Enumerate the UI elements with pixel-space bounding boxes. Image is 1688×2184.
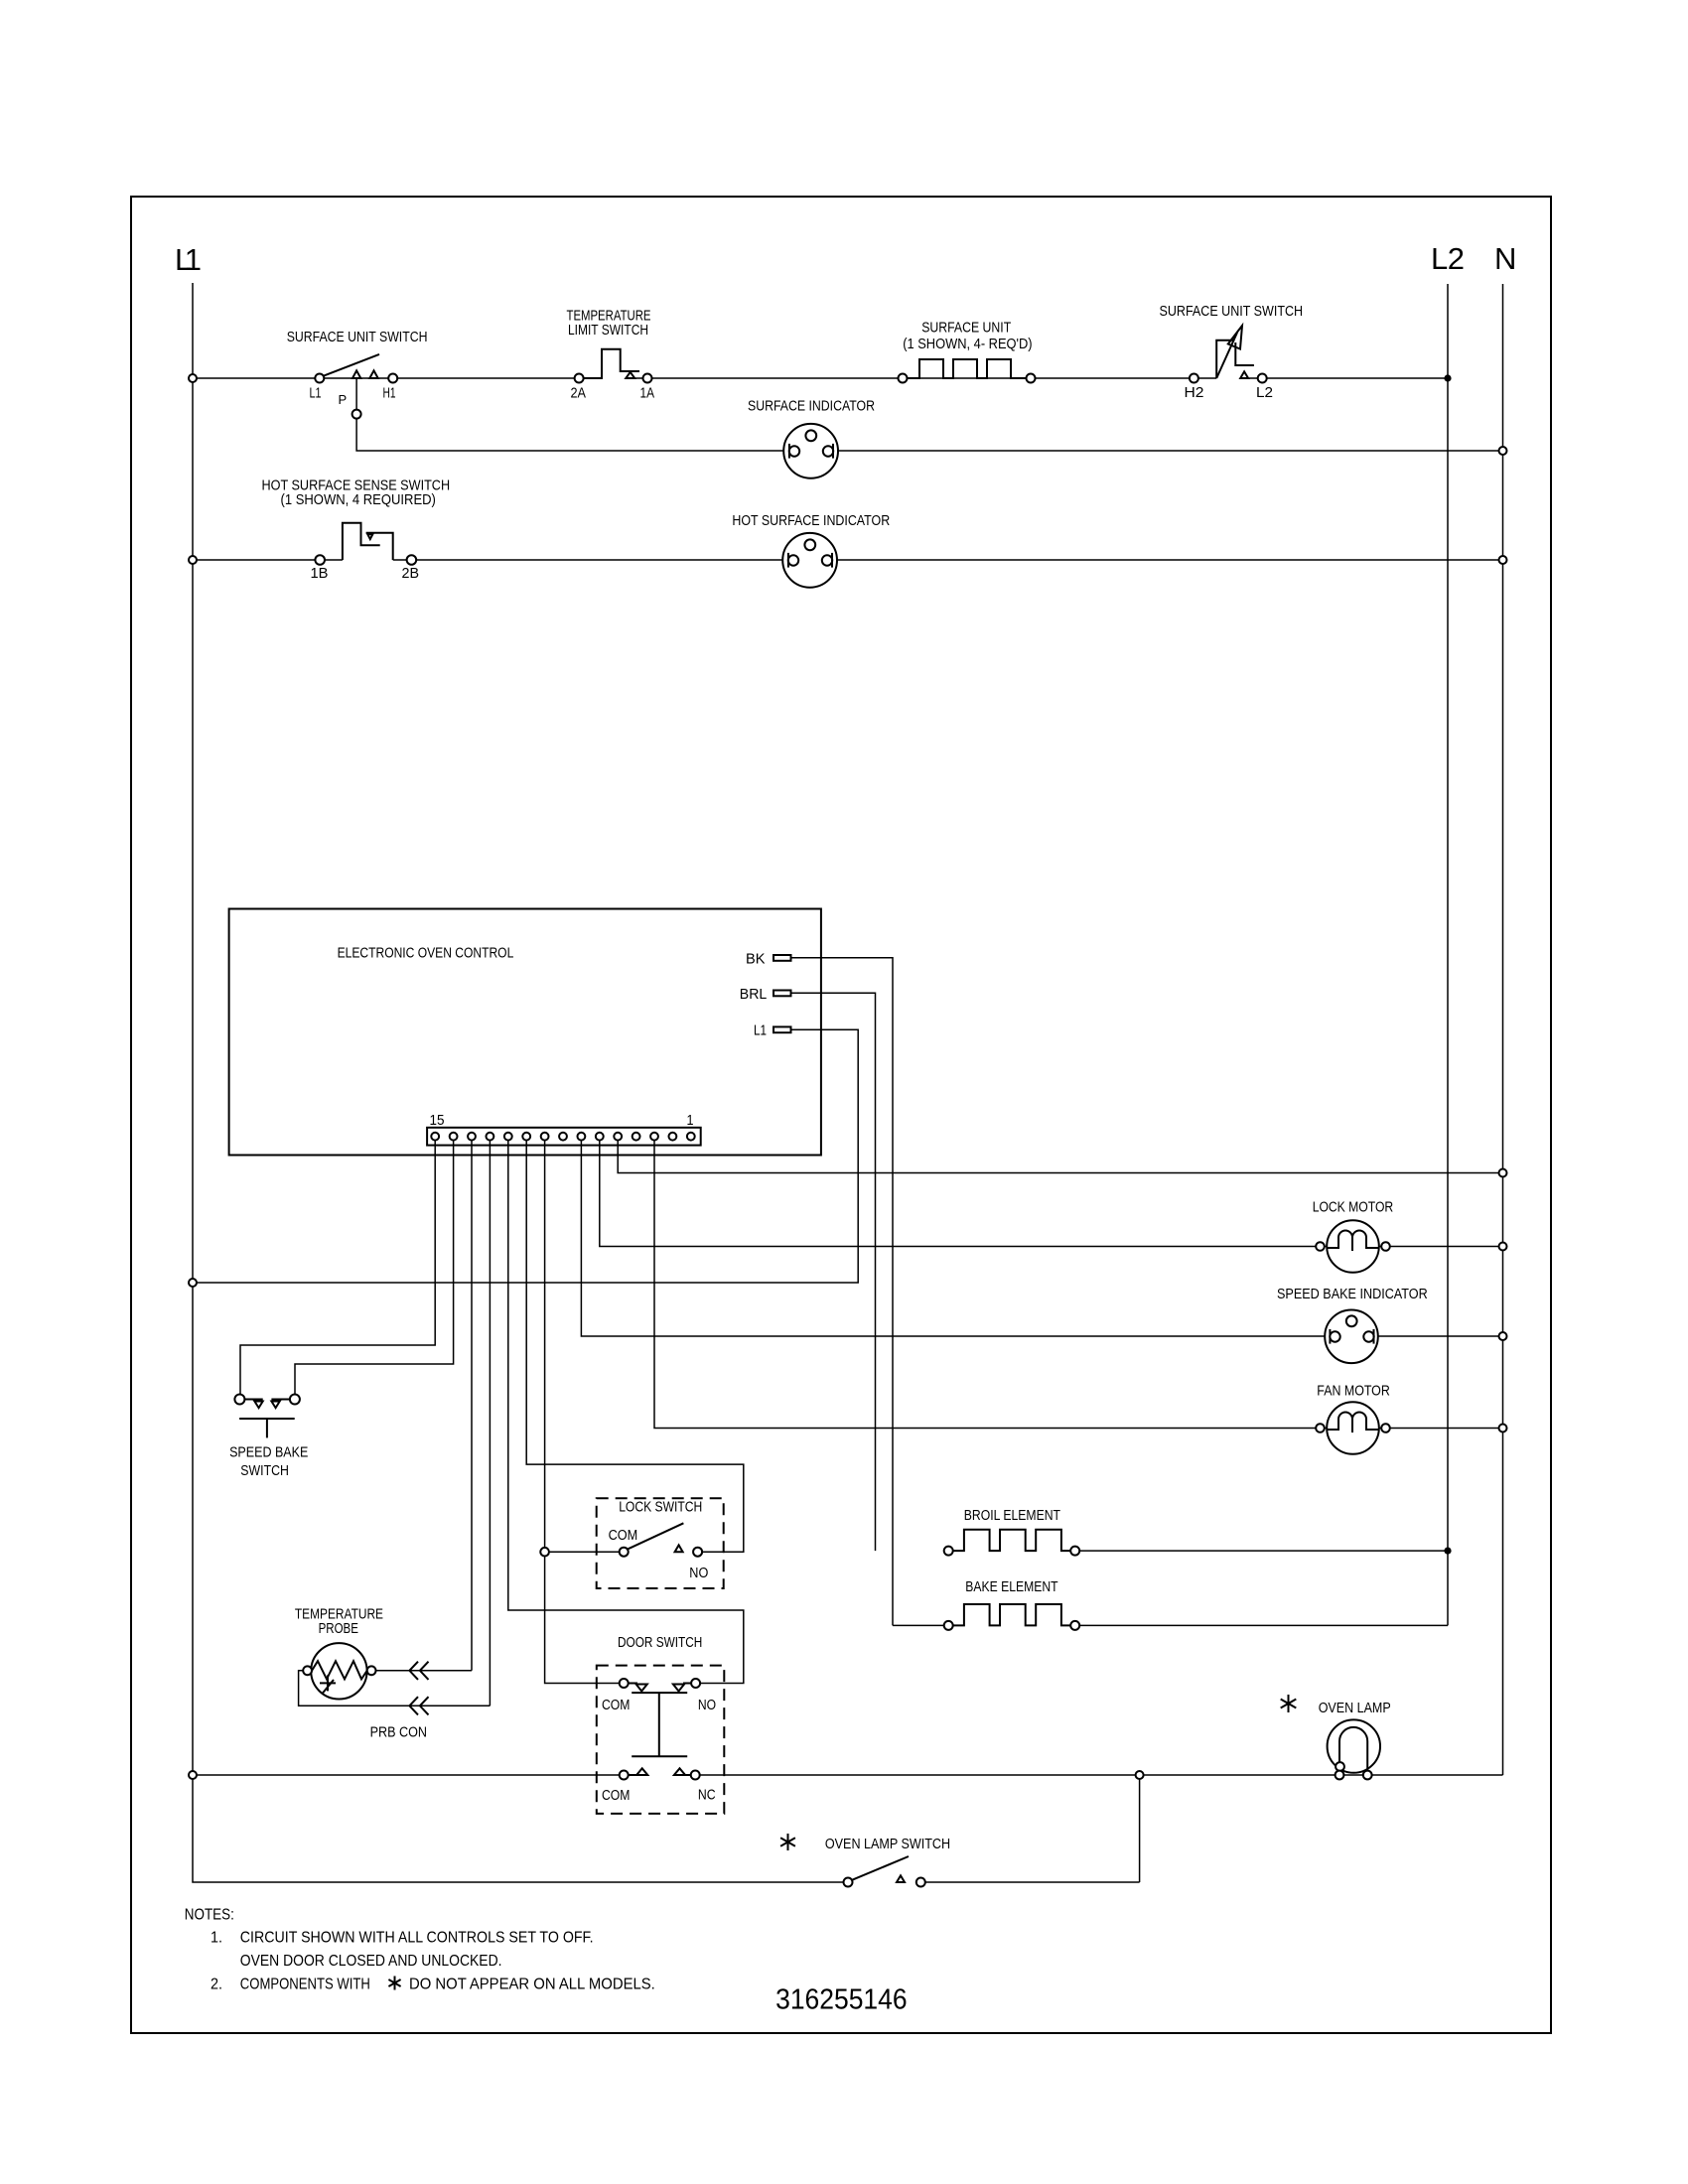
broil element terminal left bbox=[944, 1547, 953, 1556]
temperature probe body bbox=[311, 1643, 366, 1699]
svg-text:1.: 1. bbox=[211, 1930, 222, 1947]
temperature probe polarity mark bbox=[320, 1675, 336, 1694]
surface unit switch (right) terminal H2 bbox=[1190, 374, 1198, 383]
wire to lock switch COM bbox=[549, 1551, 620, 1553]
surface unit switch (left) terminal H1 bbox=[388, 374, 397, 383]
surface unit switch (left) blade bbox=[324, 354, 379, 376]
svg-text:(1 SHOWN, 4 REQUIRED): (1 SHOWN, 4 REQUIRED) bbox=[281, 491, 436, 508]
temperature probe terminal right bbox=[367, 1666, 376, 1675]
door switch actuator T bbox=[632, 1693, 687, 1756]
bake element bbox=[953, 1604, 1070, 1625]
surface unit switch (left) terminal L1 bbox=[315, 374, 324, 383]
svg-text:P: P bbox=[339, 392, 348, 407]
pin BRL tab bbox=[774, 991, 791, 997]
broil element bbox=[953, 1530, 1070, 1551]
wire pin11 to door switch NO bbox=[508, 1141, 744, 1684]
pin BK tab bbox=[774, 955, 791, 961]
hot surface sense switch terminal 1B bbox=[315, 555, 325, 565]
oven lamp bbox=[1328, 1719, 1380, 1772]
lock switch NO terminal bbox=[693, 1548, 702, 1557]
svg-text:1A: 1A bbox=[640, 385, 655, 402]
wire L1 pin to L1 rail bbox=[193, 1029, 858, 1283]
hot surface sense switch terminal 2B bbox=[407, 555, 417, 565]
surface unit element terminal right bbox=[1027, 374, 1036, 383]
svg-text:OVEN LAMP: OVEN LAMP bbox=[1319, 1700, 1391, 1716]
hot surface sense switch moving contact bbox=[343, 523, 380, 560]
oven lamp switch right terminal bbox=[916, 1878, 925, 1887]
lock switch dashed box bbox=[597, 1498, 724, 1588]
svg-text:NO: NO bbox=[698, 1697, 716, 1713]
wire bake to L2 bbox=[1079, 1624, 1448, 1626]
oven lamp switch asterisk bbox=[780, 1834, 795, 1850]
wire probe lower to pin12 bbox=[299, 1671, 491, 1706]
electronic oven control box bbox=[229, 909, 821, 1156]
speed bake switch label bbox=[229, 1444, 308, 1480]
oven lamp switch blade bbox=[852, 1856, 909, 1880]
svg-text:CIRCUIT SHOWN WITH ALL CONTROL: CIRCUIT SHOWN WITH ALL CONTROLS SET TO O… bbox=[240, 1930, 594, 1947]
wire P branch bbox=[355, 378, 357, 410]
door switch upper COM terminal bbox=[620, 1679, 629, 1688]
border frame bbox=[131, 197, 1551, 2033]
svg-text:L2: L2 bbox=[1256, 384, 1273, 401]
wire lamp switch riser bbox=[1139, 1779, 1141, 1882]
terminal on N rail row3 bbox=[1499, 556, 1507, 564]
wire bottom row L1 to door COM bbox=[193, 1774, 620, 1776]
bake element terminal left bbox=[944, 1621, 953, 1630]
svg-text:H1: H1 bbox=[383, 385, 396, 402]
hot surface indicator lamp bbox=[782, 533, 837, 588]
wire broil to L2 bbox=[1079, 1550, 1448, 1552]
svg-text:2B: 2B bbox=[402, 565, 420, 582]
temperature probe label bbox=[295, 1606, 383, 1637]
wire lamp switch to riser bbox=[925, 1881, 1140, 1883]
temperature probe resistor bbox=[312, 1661, 367, 1679]
wire main row L1 to L2 bbox=[193, 377, 1448, 379]
junction dot at L2 row1 bbox=[1444, 374, 1451, 381]
door switch lower COM terminal bbox=[620, 1771, 629, 1780]
svg-text:NC: NC bbox=[698, 1787, 716, 1804]
wire surface indicator row bbox=[356, 419, 1502, 451]
wire BK corner to bake element bbox=[893, 1624, 944, 1626]
wire L2 rail bbox=[1447, 284, 1449, 1625]
wire pin10 to lock switch NO bbox=[526, 1141, 744, 1553]
svg-text:SURFACE UNIT SWITCH: SURFACE UNIT SWITCH bbox=[287, 329, 428, 345]
lock motor bbox=[1327, 1220, 1379, 1273]
junction on L1 rail bottom row bbox=[189, 1771, 197, 1779]
temperature limit switch label bbox=[567, 308, 651, 339]
temperature limit switch body bbox=[584, 349, 639, 378]
surface unit element terminal left bbox=[899, 374, 908, 383]
junction on L1 rail row3 bbox=[189, 556, 197, 564]
speed bake switch stem bbox=[266, 1419, 268, 1437]
speed bake indicator lamp bbox=[1325, 1310, 1378, 1364]
surface unit label bbox=[903, 320, 1032, 352]
svg-text:HOT SURFACE INDICATOR: HOT SURFACE INDICATOR bbox=[732, 512, 890, 529]
oven lamp asterisk bbox=[1281, 1695, 1297, 1712]
surface unit switch (right) flag bbox=[1216, 341, 1234, 378]
svg-text:BK: BK bbox=[746, 951, 766, 968]
wire hot surface row bbox=[193, 559, 1503, 561]
lock switch triangle bbox=[675, 1545, 683, 1552]
terminal strip pin circles bbox=[431, 1133, 694, 1141]
svg-text:1B: 1B bbox=[311, 565, 329, 582]
hot surface sense switch fixed contact bbox=[366, 533, 393, 560]
oven lamp terminals bbox=[1336, 1762, 1372, 1779]
oven lamp switch left terminal bbox=[844, 1878, 853, 1887]
junction lock COM feed on pin9 wire bbox=[540, 1548, 549, 1557]
wire pin15 to speed bake switch left bbox=[240, 1141, 435, 1395]
bake element terminal right bbox=[1070, 1621, 1079, 1630]
fan motor bbox=[1327, 1402, 1379, 1454]
svg-text:COM: COM bbox=[609, 1527, 638, 1544]
svg-text:15: 15 bbox=[430, 1112, 445, 1129]
svg-text:SURFACE UNIT: SURFACE UNIT bbox=[921, 320, 1011, 337]
note 2 asterisk bbox=[388, 1977, 400, 1990]
door switch lower contact wires bbox=[629, 1774, 691, 1776]
svg-text:L1: L1 bbox=[310, 385, 322, 402]
svg-text:COM: COM bbox=[602, 1697, 630, 1713]
junction on L1 rail row1 bbox=[189, 374, 197, 382]
lock switch blade bbox=[628, 1523, 683, 1549]
door switch lower triangles bbox=[636, 1768, 685, 1775]
terminal strip bbox=[427, 1128, 701, 1146]
svg-text:BAKE ELEMENT: BAKE ELEMENT bbox=[965, 1578, 1057, 1595]
surface unit switch (right) step contact bbox=[1235, 342, 1254, 365]
connector chevrons upper bbox=[409, 1662, 428, 1680]
svg-text:DOOR SWITCH: DOOR SWITCH bbox=[618, 1634, 702, 1651]
temperature limit switch terminal 2A bbox=[575, 374, 584, 383]
svg-text:316255146: 316255146 bbox=[775, 1984, 908, 2016]
svg-text:DO NOT APPEAR ON ALL MODELS.: DO NOT APPEAR ON ALL MODELS. bbox=[409, 1977, 655, 1993]
wire pin6 to lock motor row bbox=[600, 1141, 1503, 1247]
wire pin3 to fan motor row bbox=[654, 1141, 1503, 1429]
svg-text:L2: L2 bbox=[1431, 241, 1465, 276]
broil element terminal right bbox=[1070, 1547, 1079, 1556]
svg-text:SWITCH: SWITCH bbox=[240, 1462, 289, 1479]
oven lamp switch triangle bbox=[897, 1875, 905, 1882]
svg-text:SPEED BAKE INDICATOR: SPEED BAKE INDICATOR bbox=[1277, 1286, 1428, 1302]
speed bake switch bar bbox=[239, 1418, 295, 1420]
hot surface sense switch label bbox=[262, 478, 451, 509]
svg-text:BROIL ELEMENT: BROIL ELEMENT bbox=[964, 1507, 1060, 1524]
wire probe upper to pin13 bbox=[376, 1670, 473, 1672]
door switch upper NO terminal bbox=[691, 1679, 700, 1688]
hot surface sense switch triangle bbox=[367, 534, 372, 539]
connector chevrons lower bbox=[409, 1697, 428, 1714]
wire BRL to broil element bbox=[791, 993, 876, 1551]
surface unit switch (left) contact triangles bbox=[352, 370, 378, 378]
wire bottom row door NC to N bbox=[700, 1774, 1503, 1776]
door switch upper triangles bbox=[636, 1685, 685, 1692]
junction on L1 rail at EOC return bbox=[189, 1279, 197, 1287]
svg-text:NO: NO bbox=[689, 1565, 708, 1581]
speed bake switch triangles bbox=[254, 1402, 279, 1409]
svg-text:BRL: BRL bbox=[740, 986, 768, 1003]
surface unit switch (right) blade bbox=[1216, 333, 1237, 378]
svg-text:COM: COM bbox=[602, 1787, 630, 1804]
svg-text:COMPONENTS WITH: COMPONENTS WITH bbox=[240, 1977, 370, 1993]
wire pin9 to door switch COM bbox=[545, 1141, 620, 1684]
wire pin12 to probe lower bbox=[489, 1141, 491, 1706]
svg-text:2.: 2. bbox=[211, 1977, 222, 1993]
wire L1 rail bbox=[193, 283, 848, 1882]
surface unit switch (right) terminal L2 bbox=[1258, 374, 1267, 383]
svg-text:L1: L1 bbox=[175, 242, 202, 277]
junction bottom row to lamp switch bbox=[1136, 1771, 1144, 1779]
pin L1 tab bbox=[774, 1026, 791, 1032]
svg-text:SPEED BAKE: SPEED BAKE bbox=[229, 1444, 308, 1461]
lock switch COM terminal bbox=[620, 1548, 629, 1557]
speed bake switch terminals bbox=[234, 1395, 300, 1405]
surface unit element bbox=[908, 359, 1027, 378]
terminal on N rail lock motor row bbox=[1499, 1243, 1507, 1251]
wire pin14 to speed bake switch right bbox=[295, 1141, 454, 1395]
door switch upper contact wires bbox=[629, 1683, 691, 1685]
svg-text:ELECTRONIC OVEN CONTROL: ELECTRONIC OVEN CONTROL bbox=[338, 945, 514, 962]
svg-text:LOCK SWITCH: LOCK SWITCH bbox=[619, 1499, 702, 1516]
wire pin7 to speed bake indicator row bbox=[581, 1141, 1502, 1336]
svg-text:LIMIT SWITCH: LIMIT SWITCH bbox=[568, 322, 648, 339]
wire pin5 to N bbox=[618, 1141, 1502, 1173]
svg-text:OVEN LAMP SWITCH: OVEN LAMP SWITCH bbox=[825, 1836, 950, 1852]
svg-text:H2: H2 bbox=[1185, 384, 1204, 401]
svg-text:N: N bbox=[1494, 241, 1516, 276]
terminal P bbox=[352, 410, 361, 419]
terminal on N rail row2 bbox=[1499, 447, 1507, 455]
surface indicator lamp bbox=[783, 424, 838, 478]
svg-text:OVEN DOOR CLOSED AND UNLOCKED.: OVEN DOOR CLOSED AND UNLOCKED. bbox=[240, 1953, 502, 1970]
svg-text:2A: 2A bbox=[571, 385, 587, 402]
svg-text:LOCK MOTOR: LOCK MOTOR bbox=[1313, 1199, 1394, 1216]
lock motor terminals bbox=[1316, 1242, 1390, 1251]
surface unit switch (right) triangle bbox=[1240, 371, 1248, 378]
svg-text:SURFACE UNIT SWITCH: SURFACE UNIT SWITCH bbox=[1160, 303, 1304, 320]
svg-text:SURFACE INDICATOR: SURFACE INDICATOR bbox=[748, 398, 875, 415]
wire pin13 to probe upper bbox=[471, 1141, 473, 1671]
svg-text:PRB CON: PRB CON bbox=[370, 1724, 427, 1741]
door switch lower NC terminal bbox=[691, 1771, 700, 1780]
svg-text:L1: L1 bbox=[754, 1023, 767, 1039]
temperature probe terminal left bbox=[303, 1666, 312, 1675]
temperature limit switch arrow bbox=[626, 372, 634, 378]
terminal on N rail fan motor row bbox=[1499, 1425, 1507, 1433]
svg-text:NOTES:: NOTES: bbox=[185, 1907, 234, 1924]
door switch dashed box bbox=[597, 1666, 725, 1814]
temperature limit switch terminal 1A bbox=[643, 374, 652, 383]
fan motor terminals bbox=[1316, 1424, 1390, 1433]
terminal on N rail speed bake indicator row bbox=[1499, 1332, 1507, 1340]
speed bake switch contact wires bbox=[244, 1399, 290, 1401]
wire N rail bbox=[1502, 284, 1504, 1775]
surface unit switch (right) arrowhead bbox=[1228, 326, 1242, 349]
wire BK to bake element bbox=[791, 958, 894, 1626]
svg-text:FAN MOTOR: FAN MOTOR bbox=[1317, 1383, 1390, 1400]
junction dot broil at L2 bbox=[1444, 1548, 1451, 1555]
svg-text:1: 1 bbox=[687, 1112, 694, 1129]
svg-text:(1 SHOWN, 4- REQ'D): (1 SHOWN, 4- REQ'D) bbox=[903, 336, 1032, 352]
svg-text:PROBE: PROBE bbox=[319, 1620, 358, 1637]
terminal on N rail pin5 row bbox=[1499, 1169, 1507, 1177]
